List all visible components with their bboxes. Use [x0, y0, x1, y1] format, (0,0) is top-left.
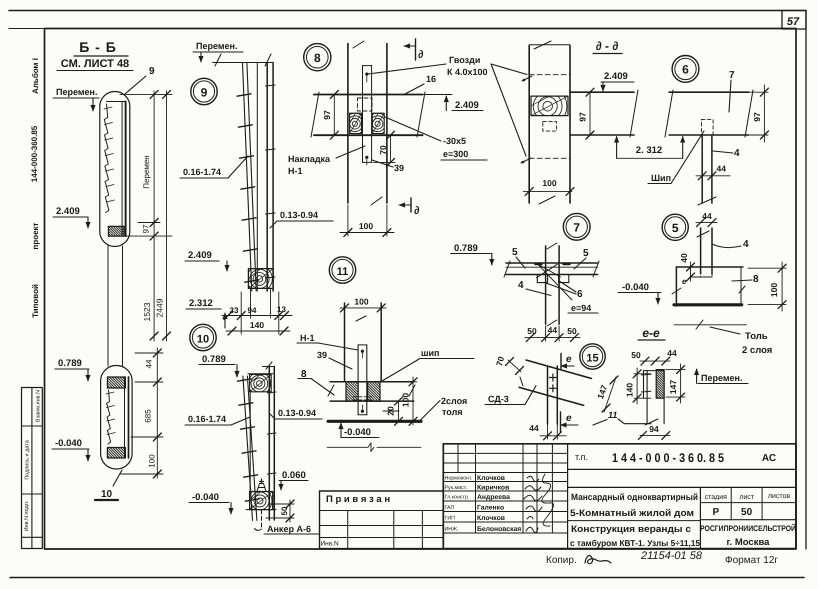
svg-text:Киричков: Киричков [477, 485, 509, 492]
detail 8 post lines [347, 44, 349, 203]
detail 7 post lines [545, 246, 547, 324]
svg-text:5: 5 [512, 247, 518, 258]
svg-text:РОСГИПРОНИИСЕЛЬСТРОЙ: РОСГИПРОНИИСЕЛЬСТРОЙ [700, 523, 796, 533]
e-e board left [643, 371, 645, 399]
title block outline [443, 444, 796, 549]
svg-text:97: 97 [578, 112, 588, 122]
d-d left beam [570, 91, 634, 93]
detail 9 post lines [256, 63, 258, 292]
svg-text:100: 100 [359, 221, 373, 231]
detail 9 bubble [191, 78, 217, 104]
svg-text:16: 16 [426, 74, 436, 84]
svg-text:94: 94 [649, 424, 659, 434]
svg-text:6: 6 [577, 289, 583, 300]
svg-text:1523: 1523 [142, 302, 152, 321]
detail 11 dim 20 [398, 401, 400, 421]
svg-text:е: е [682, 277, 687, 286]
detail 9 sill block [248, 269, 273, 289]
svg-text:с тамбуром КВТ-1. Узлы 5÷11,15: с тамбуром КВТ-1. Узлы 5÷11,15 [570, 538, 700, 548]
svg-text:0.16-1.74: 0.16-1.74 [183, 167, 221, 177]
title block inner lines right part [567, 444, 569, 549]
svg-text:лист: лист [739, 494, 754, 501]
svg-text:Перемен: Перемен [142, 155, 151, 188]
svg-text:Толь: Толь [745, 331, 768, 342]
svg-text:стадия: стадия [705, 494, 728, 501]
d-d post lines [528, 46, 530, 203]
capsule detail outline upper [100, 92, 130, 247]
svg-text:СМ. ЛИСТ 48: СМ. ЛИСТ 48 [61, 58, 129, 70]
svg-text:0.060: 0.060 [282, 470, 306, 481]
svg-text:44: 44 [667, 348, 677, 358]
svg-text:-0.040: -0.040 [192, 492, 219, 503]
svg-text:100: 100 [542, 178, 556, 188]
svg-text:Клочков: Клочков [477, 475, 505, 482]
detail 6 dim 97 right [750, 91, 768, 93]
svg-text:144-000-360.85: 144-000-360.85 [30, 125, 39, 182]
svg-text:140: 140 [250, 320, 264, 330]
svg-text:∂ - ∂: ∂ - ∂ [596, 39, 619, 53]
svg-text:2449: 2449 [155, 298, 165, 317]
svg-text:50: 50 [741, 507, 753, 518]
detail 15 diagonal brace [526, 360, 592, 379]
svg-text:100: 100 [401, 393, 411, 407]
outer right border line [805, 11, 807, 550]
detail 8 hidden tenon dashed [358, 98, 373, 111]
svg-text:Мансардный одноквартирный: Мансардный одноквартирный [571, 492, 698, 502]
detail 8 dim 70 [390, 135, 392, 162]
svg-text:9: 9 [149, 66, 155, 77]
svg-text:шип: шип [421, 348, 439, 358]
svg-text:е: е [566, 413, 572, 424]
svg-text:2слоя: 2слоя [441, 396, 467, 406]
svg-text:44: 44 [548, 325, 558, 335]
svg-text:-0.040: -0.040 [55, 438, 82, 449]
sheet number box 57 [782, 11, 806, 30]
detail 5 beam outline [676, 266, 743, 268]
svg-text:4: 4 [518, 280, 524, 291]
detail 15 post lines [547, 367, 549, 424]
detail 8 dim 97 [333, 95, 335, 136]
svg-text:Нормоконт.: Нормоконт. [445, 476, 473, 482]
detail 10 cladding nails [237, 379, 251, 381]
d-d small dashed box [543, 121, 557, 131]
svg-text:4: 4 [734, 148, 740, 159]
detail 8 nail dots [365, 73, 368, 76]
detail 11 beam outline [330, 381, 414, 383]
detail 15 nail crosses [549, 377, 556, 379]
detail 5 dim 40 [690, 262, 692, 281]
detail 10 anchor dashed rod [261, 510, 263, 529]
e-e nails [641, 373, 651, 376]
detail 11 hidden tenon dashes [353, 396, 372, 398]
svg-text:50: 50 [280, 506, 289, 515]
svg-text:г. Москва: г. Москва [727, 537, 771, 548]
detail 9 cladding board lines [243, 63, 252, 291]
svg-text:Анкер А-6: Анкер А-6 [267, 524, 311, 534]
post line lower capsule right [124, 377, 126, 458]
svg-text:11: 11 [337, 266, 349, 278]
privyazan table [320, 491, 444, 549]
svg-text:0.789: 0.789 [58, 358, 82, 369]
detail 7 bubble [563, 213, 590, 240]
svg-text:Копир.: Копир. [546, 555, 577, 566]
svg-text:Перемен.: Перемен. [701, 373, 742, 383]
detail 11 hatched band left [346, 382, 358, 401]
detail 15 dim 147 diagonal [604, 377, 616, 412]
detail 11 floor line thick [328, 420, 421, 423]
svg-text:0.13-0.94: 0.13-0.94 [280, 210, 318, 220]
svg-text:44: 44 [145, 359, 154, 368]
svg-text:∂: ∂ [418, 49, 424, 61]
svg-text:0.789: 0.789 [454, 243, 478, 254]
hatched sill block upper capsule [108, 226, 124, 236]
svg-text:100: 100 [148, 454, 157, 468]
svg-text:9: 9 [201, 86, 208, 100]
svg-text:44: 44 [529, 423, 539, 433]
section mark d bottom [410, 198, 412, 212]
svg-text:Альбом I: Альбом I [31, 58, 40, 94]
svg-text:2.312: 2.312 [189, 298, 213, 309]
svg-text:50: 50 [527, 326, 537, 336]
svg-text:Инв.N: Инв.N [321, 541, 340, 548]
detail 6 beam lines [669, 91, 749, 93]
svg-text:Белоновская: Белоновская [477, 526, 521, 533]
detail 7 clip plates [537, 275, 547, 282]
detail 8 bubble [304, 44, 331, 71]
detail 10 board lines [268, 367, 270, 521]
detail 6 tenon dashed [701, 119, 713, 135]
detail 7 nails on rail [535, 263, 541, 265]
svg-text:140: 140 [625, 383, 635, 397]
svg-text:Галенко: Галенко [477, 505, 504, 512]
svg-text:Гл.констр.: Гл.констр. [445, 495, 470, 501]
svg-text:2.409: 2.409 [56, 206, 80, 217]
svg-text:97: 97 [322, 110, 332, 120]
svg-text:П р и в я з а н: П р и в я з а н [326, 494, 390, 505]
svg-text:2 слоя: 2 слоя [742, 345, 772, 356]
capsule detail outline lower [101, 366, 133, 470]
detail 9 board joint ticks [266, 85, 276, 86]
detail 11 nail dots [361, 350, 364, 353]
svg-text:100: 100 [354, 297, 368, 307]
svg-text:∂: ∂ [414, 205, 420, 217]
hatched block lower capsule top [107, 377, 125, 388]
svg-text:листов: листов [768, 493, 791, 500]
svg-text:Перемен.: Перемен. [196, 41, 237, 51]
e-e dim 147 [666, 369, 685, 371]
svg-text:ГАП: ГАП [445, 505, 455, 511]
svg-text:44: 44 [717, 164, 727, 174]
svg-text:Формат 12г: Формат 12г [725, 555, 778, 566]
hatched block lower capsule bottom [107, 448, 125, 459]
left frame column box [22, 388, 43, 549]
detail 8 bottom dim 100 [347, 205, 349, 236]
svg-text:20: 20 [386, 406, 396, 416]
svg-text:АС: АС [762, 453, 776, 464]
detail 7 cross brace X [538, 264, 561, 277]
svg-text:94: 94 [248, 306, 257, 315]
svg-text:Н-1: Н-1 [288, 166, 303, 176]
detail 10 bubble [190, 324, 216, 350]
svg-text:Взаим.инв.N: Взаим.инв.N [36, 390, 42, 422]
detail 5 bottom ext line [674, 324, 747, 326]
detail 10 dim 50 [270, 503, 294, 505]
svg-text:50: 50 [631, 350, 641, 360]
svg-text:21154-01 58: 21154-01 58 [640, 550, 703, 562]
svg-text:Типовой: Типовой [31, 284, 40, 318]
svg-text:39: 39 [317, 350, 327, 360]
detail 7 rail lines [506, 262, 598, 264]
svg-text:10: 10 [197, 334, 209, 346]
detail 8 hatched square left [350, 113, 362, 133]
svg-text:-0.040: -0.040 [622, 282, 649, 293]
detail 11 dim 100 right [383, 381, 417, 383]
detail 10 board joint ticks [268, 392, 277, 393]
svg-text:40: 40 [679, 253, 689, 263]
e-e board right line [663, 370, 665, 424]
d-d nails left [522, 76, 532, 81]
detail 10 cladding board lines [243, 376, 253, 520]
svg-text:1 4 4 - 0 0 0 - 3 6 0. 8 5: 1 4 4 - 0 0 0 - 3 6 0. 8 5 [612, 451, 724, 465]
svg-text:100: 100 [769, 283, 779, 297]
detail 8 nakladka strip [363, 65, 372, 67]
detail 5 post lines [700, 228, 702, 274]
svg-text:97: 97 [752, 112, 762, 122]
svg-text:8: 8 [314, 51, 321, 65]
detail 11 bottom dim line with break [327, 446, 368, 448]
svg-text:Клочков: Клочков [477, 515, 505, 522]
signature table grid [443, 472, 567, 474]
e-e hatched strip [656, 370, 664, 399]
detail 5 bubble [662, 214, 688, 240]
detail 15 section mark e bottom [560, 412, 562, 432]
dim chain line inner [153, 91, 155, 341]
detail 5 tol black strip [674, 303, 742, 306]
svg-text:2. 312: 2. 312 [636, 145, 662, 156]
detail 10 top hatched block [250, 375, 272, 392]
svg-text:7: 7 [729, 70, 735, 81]
svg-text:50: 50 [567, 326, 577, 336]
d-d dim 97 left [589, 92, 591, 135]
svg-text:685: 685 [144, 409, 153, 423]
svg-text:5: 5 [672, 221, 679, 235]
svg-text:Перемен.: Перемен. [56, 87, 97, 97]
svg-text:Н-1: Н-1 [300, 333, 315, 343]
svg-text:2.409: 2.409 [604, 71, 628, 82]
e-e dim 140 [634, 373, 651, 375]
cladding zigzag upper capsule [104, 104, 109, 213]
lower dim chain line [156, 348, 158, 478]
svg-text:-30х5: -30х5 [443, 136, 466, 146]
lower dim chain extension lines [135, 352, 163, 354]
svg-text:e=300: e=300 [443, 149, 468, 159]
svg-text:ГИП: ГИП [445, 516, 456, 522]
svg-text:Рук.маст.: Рук.маст. [445, 485, 468, 491]
svg-text:147: 147 [668, 380, 678, 394]
dim chain line outer [166, 91, 168, 341]
svg-text:0.16-1.74: 0.16-1.74 [188, 414, 226, 424]
svg-text:39: 39 [394, 163, 404, 173]
detail 9 dim 33 94 13 [222, 315, 292, 317]
svg-text:СД-3: СД-3 [488, 394, 509, 404]
svg-text:-0.040: -0.040 [344, 427, 371, 438]
detail 5 tenon dashed [701, 267, 712, 277]
svg-text:10: 10 [101, 489, 113, 500]
svg-text:Б - Б: Б - Б [79, 39, 117, 55]
svg-text:толя: толя [442, 407, 463, 417]
detail 11 hatched band right [368, 382, 380, 401]
svg-text:2.409: 2.409 [188, 250, 212, 261]
detail 9 top cap with breaks [213, 62, 273, 64]
svg-text:5: 5 [583, 248, 589, 259]
post lines below capsule [107, 246, 109, 366]
detail 8 hatched square right [372, 113, 384, 133]
svg-text:ИНЖ.: ИНЖ. [445, 527, 459, 533]
section mark d top [415, 39, 417, 60]
sheet bottom border line [10, 577, 804, 579]
svg-text:К 4.0х100: К 4.0х100 [447, 67, 488, 77]
detail 9 dim 140 [226, 330, 290, 332]
svg-text:Шип: Шип [651, 173, 671, 183]
svg-text:8: 8 [753, 274, 759, 285]
svg-text:2.409: 2.409 [455, 100, 479, 111]
dim chain extension lines [120, 93, 172, 95]
svg-text:11: 11 [608, 410, 617, 420]
svg-text:7: 7 [573, 221, 580, 235]
detail 15 bubble [580, 344, 605, 369]
svg-text:0.13-0.94: 0.13-0.94 [278, 408, 316, 418]
detail 15 section mark e top [560, 354, 562, 369]
svg-text:15: 15 [586, 352, 598, 364]
svg-text:т.п.: т.п. [575, 452, 588, 462]
detail 11 post lines [344, 303, 346, 382]
svg-text:Накладка: Накладка [288, 154, 331, 164]
sheet top border line [9, 10, 806, 12]
detail 11 bubble [329, 257, 355, 283]
detail 9 cladding nails [237, 94, 251, 96]
svg-text:e=94: e=94 [571, 303, 591, 313]
svg-text:Конструкция веранды с: Конструкция веранды с [571, 524, 691, 535]
svg-text:е-е: е-е [642, 326, 660, 340]
d-d hidden beam dashed lines [529, 74, 570, 76]
svg-text:е: е [566, 354, 572, 365]
cladding zigzag lower capsule [107, 390, 111, 444]
svg-text:Подпись и дата: Подпись и дата [25, 439, 31, 479]
detail 10 top cap [263, 366, 275, 368]
svg-text:70: 70 [378, 145, 388, 155]
signature squiggles [524, 476, 542, 532]
svg-text:Инв.N подл.: Инв.N подл. [24, 500, 30, 531]
svg-text:57: 57 [787, 16, 800, 28]
svg-text:Гвозди: Гвозди [449, 55, 480, 65]
detail 7 dim 50 44 50 [545, 326, 547, 341]
post lines inside capsule [121, 102, 123, 237]
svg-text:33: 33 [230, 306, 239, 315]
svg-text:5-Комнатный жилой дом: 5-Комнатный жилой дом [570, 508, 694, 519]
detail 6 post below beam [701, 135, 703, 203]
detail 5 dim 100 right [748, 267, 786, 269]
detail 6 bubble [672, 56, 699, 83]
svg-text:6: 6 [682, 63, 689, 77]
detail 11 nakladka strip [358, 344, 367, 346]
detail 8 beam lines [314, 94, 423, 96]
detail 10 anchor head [257, 484, 266, 492]
detail 10 sill block [250, 492, 273, 510]
d-d beam end grain block [531, 96, 568, 116]
svg-text:Андреева: Андреева [477, 494, 510, 501]
svg-text:97: 97 [142, 224, 151, 233]
svg-text:проект: проект [31, 222, 40, 249]
svg-text:Р: Р [712, 507, 719, 518]
svg-text:13: 13 [277, 305, 286, 314]
svg-text:0.789: 0.789 [202, 354, 226, 365]
detail 9 bottom extension lines [240, 292, 242, 334]
svg-text:4: 4 [743, 239, 749, 250]
